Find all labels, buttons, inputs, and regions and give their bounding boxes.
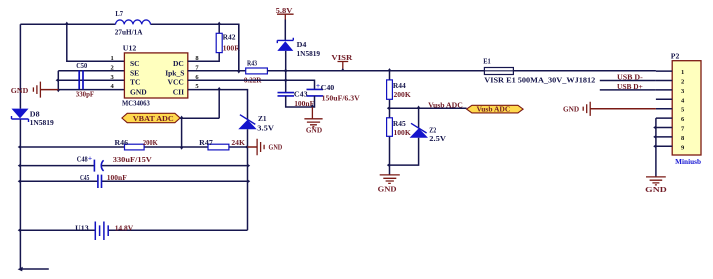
wire pin5 stem to flag row xyxy=(218,90,220,119)
wire caps bottom rail xyxy=(286,96,315,107)
svg-text:C43: C43 xyxy=(294,90,308,99)
svg-text:1N5819: 1N5819 xyxy=(297,49,321,58)
svg-text:+: + xyxy=(316,81,320,90)
svg-text:C45: C45 xyxy=(80,173,89,182)
wire Z2 stem xyxy=(418,108,420,128)
zener Z2 xyxy=(410,128,428,138)
ground GND below caps xyxy=(311,107,313,119)
svg-text:VISR E1 500MA_30V_WJ1812: VISR E1 500MA_30V_WJ1812 xyxy=(484,77,595,85)
svg-text:100K: 100K xyxy=(394,128,411,137)
svg-text:P2: P2 xyxy=(671,51,680,60)
wire divider row xyxy=(20,146,247,148)
connector P2 Miniusb body xyxy=(672,61,701,155)
svg-text:Ipk_S: Ipk_S xyxy=(165,68,184,77)
diode D4 1N5819 xyxy=(277,38,293,43)
wire pin8 row xyxy=(188,24,219,61)
svg-text:100R: 100R xyxy=(223,43,241,52)
svg-text:1: 1 xyxy=(111,55,114,62)
inductor L7 xyxy=(116,20,151,24)
svg-text:330uF/15V: 330uF/15V xyxy=(113,155,153,164)
capacitor C40 xyxy=(307,89,324,96)
svg-text:Vusb ADC: Vusb ADC xyxy=(428,101,463,110)
wire VISR rail xyxy=(267,70,656,72)
fuse E1 xyxy=(484,68,513,75)
svg-text:L7: L7 xyxy=(115,9,123,18)
svg-text:1N5819: 1N5819 xyxy=(30,118,54,127)
flag Vusb_ADC xyxy=(467,105,523,113)
svg-text:5.8V: 5.8V xyxy=(276,6,293,15)
diode D8 1N5819 xyxy=(12,109,29,119)
svg-text:1: 1 xyxy=(681,69,684,76)
resistor R46 xyxy=(125,144,145,150)
svg-text:100nF: 100nF xyxy=(107,173,127,182)
svg-text:R42: R42 xyxy=(223,33,236,42)
svg-text:14.8V: 14.8V xyxy=(115,223,134,232)
svg-text:200K: 200K xyxy=(143,138,158,147)
wire right bus Z1 to battery row xyxy=(247,129,249,230)
svg-text:GND: GND xyxy=(378,184,398,193)
svg-text:330pF: 330pF xyxy=(76,89,95,98)
svg-text:U13: U13 xyxy=(75,223,89,232)
wire ground to pin4 xyxy=(40,89,58,91)
resistor R43 xyxy=(246,68,268,74)
svg-text:GND: GND xyxy=(130,88,147,97)
svg-text:+: + xyxy=(88,153,92,162)
svg-text:D4: D4 xyxy=(297,40,307,49)
resistor R47 xyxy=(208,144,229,150)
svg-text:GND: GND xyxy=(269,143,283,152)
wire D4 anode to rail xyxy=(285,51,287,71)
wire flag stem to divider row xyxy=(181,118,183,147)
svg-text:CII: CII xyxy=(173,88,184,97)
svg-text:2: 2 xyxy=(111,64,114,71)
pin stubs P2 xyxy=(656,71,672,146)
svg-text:R43: R43 xyxy=(247,59,257,68)
wire left VBAT bus xyxy=(20,24,48,269)
svg-text:R45: R45 xyxy=(393,119,406,128)
wire pins 6-9 ground bus xyxy=(655,118,657,177)
wire pin2 row xyxy=(58,70,124,72)
svg-text:C48: C48 xyxy=(77,155,88,164)
svg-text:SC: SC xyxy=(130,59,140,68)
svg-text:200K: 200K xyxy=(394,90,411,99)
svg-text:VBAT ADC: VBAT ADC xyxy=(133,114,174,123)
capacitor C43 xyxy=(278,93,295,96)
wire pin6 row to C40 xyxy=(188,80,315,89)
svg-text:R46: R46 xyxy=(115,138,129,147)
capacitor C45 xyxy=(98,175,102,188)
svg-text:2: 2 xyxy=(681,79,684,86)
wire pin7 row xyxy=(188,70,246,72)
svg-text:2.5V: 2.5V xyxy=(429,134,446,143)
wire R44 stems xyxy=(389,71,391,108)
svg-text:R47: R47 xyxy=(199,138,213,147)
wire pin5 row xyxy=(188,90,248,120)
wire pin1 stem xyxy=(67,24,125,61)
node pin6 tie xyxy=(284,78,288,82)
svg-text:C50: C50 xyxy=(76,61,87,70)
svg-text:Miniusb: Miniusb xyxy=(675,158,701,166)
svg-text:27uH/1A: 27uH/1A xyxy=(115,27,143,36)
wire R45 stems xyxy=(389,108,391,165)
wire bottom-left corner arrow xyxy=(18,267,23,272)
ground GND below P2 xyxy=(646,177,666,185)
resistor R42 xyxy=(216,33,222,52)
svg-text:GND: GND xyxy=(11,86,29,95)
wire C45 row xyxy=(20,180,247,182)
svg-text:DC: DC xyxy=(173,59,184,68)
svg-text:Z1: Z1 xyxy=(258,114,267,123)
wire pin4 row xyxy=(58,89,124,91)
wire to divider ground xyxy=(248,146,257,148)
battery U13 xyxy=(95,222,104,241)
wire flag row xyxy=(180,117,219,119)
wire bracket pins 2-3-4 xyxy=(57,71,59,90)
capacitor C50 xyxy=(79,70,83,89)
svg-text:E1: E1 xyxy=(483,57,491,66)
flag VBAT_ADC xyxy=(122,113,180,122)
wire pin3 row xyxy=(58,79,124,81)
svg-text:VCC: VCC xyxy=(168,78,184,87)
svg-text:C40: C40 xyxy=(321,83,335,92)
wire Z2 to bottom rail xyxy=(390,138,419,165)
ground GND left of IC xyxy=(33,82,40,98)
svg-text:SE: SE xyxy=(130,68,139,77)
svg-text:USB D-: USB D- xyxy=(617,73,643,82)
wire Vusb node row xyxy=(390,107,467,109)
svg-text:GND: GND xyxy=(306,128,322,135)
wire USB D+ row xyxy=(600,89,656,91)
svg-text:GND: GND xyxy=(563,104,580,113)
IC U12 MC34063 xyxy=(124,53,187,98)
ground GND below R45 xyxy=(389,165,391,175)
svg-text:150uF/6.3V: 150uF/6.3V xyxy=(322,93,361,102)
resistor R45 xyxy=(387,118,393,137)
svg-text:24K: 24K xyxy=(231,138,245,147)
svg-text:Z2: Z2 xyxy=(429,125,436,134)
zener Z1 xyxy=(238,120,256,130)
wire rail to C43 xyxy=(285,71,287,92)
svg-text:MC34063: MC34063 xyxy=(122,99,150,108)
svg-text:USB D+: USB D+ xyxy=(617,82,643,91)
svg-text:3.5V: 3.5V xyxy=(257,124,274,133)
ground GND right of divider xyxy=(257,139,264,156)
svg-text:U12: U12 xyxy=(123,44,137,53)
wire battery row xyxy=(20,229,247,231)
resistor R44 xyxy=(387,80,393,99)
wire USB D- row xyxy=(600,80,656,82)
svg-text:GND: GND xyxy=(645,185,667,194)
wire top rail xyxy=(20,24,238,71)
svg-text:Vusb ADC: Vusb ADC xyxy=(477,106,511,114)
svg-text:R44: R44 xyxy=(393,81,406,90)
capacitor C48 xyxy=(93,160,95,172)
wire C48 row xyxy=(20,165,247,167)
svg-text:TC: TC xyxy=(130,78,140,87)
